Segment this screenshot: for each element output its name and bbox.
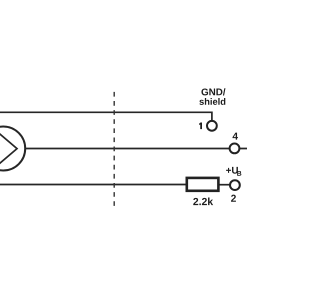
terminal pin 4 circle xyxy=(230,144,240,154)
wire: top GND/shield from left edge to pin 1 xyxy=(0,112,212,121)
terminal pin 1 circle xyxy=(207,121,217,131)
wire: middle signal from capsule to right edge through pin 4 xyxy=(26,148,248,150)
value label 2.2k xyxy=(193,198,213,206)
resistor R1 2.2k xyxy=(187,178,219,191)
terminal pin 2 circle xyxy=(230,180,240,190)
microphone capsule circle xyxy=(0,127,25,171)
microphone capsule triangle xyxy=(0,126,17,172)
net label +UB xyxy=(226,167,238,174)
wire: bottom +UB from left edge to resistor xyxy=(0,184,186,186)
pin number 1 xyxy=(199,123,202,130)
wire: resistor to pin 2 xyxy=(219,184,230,186)
net label GND/shield line 2 xyxy=(199,98,225,105)
pin number 4 xyxy=(233,133,238,140)
dashed boundary line (microphone housing) xyxy=(113,92,115,206)
net label +UB subscript xyxy=(237,171,241,176)
pin number 2 xyxy=(231,195,236,202)
net label GND/shield line 1 xyxy=(201,88,225,95)
